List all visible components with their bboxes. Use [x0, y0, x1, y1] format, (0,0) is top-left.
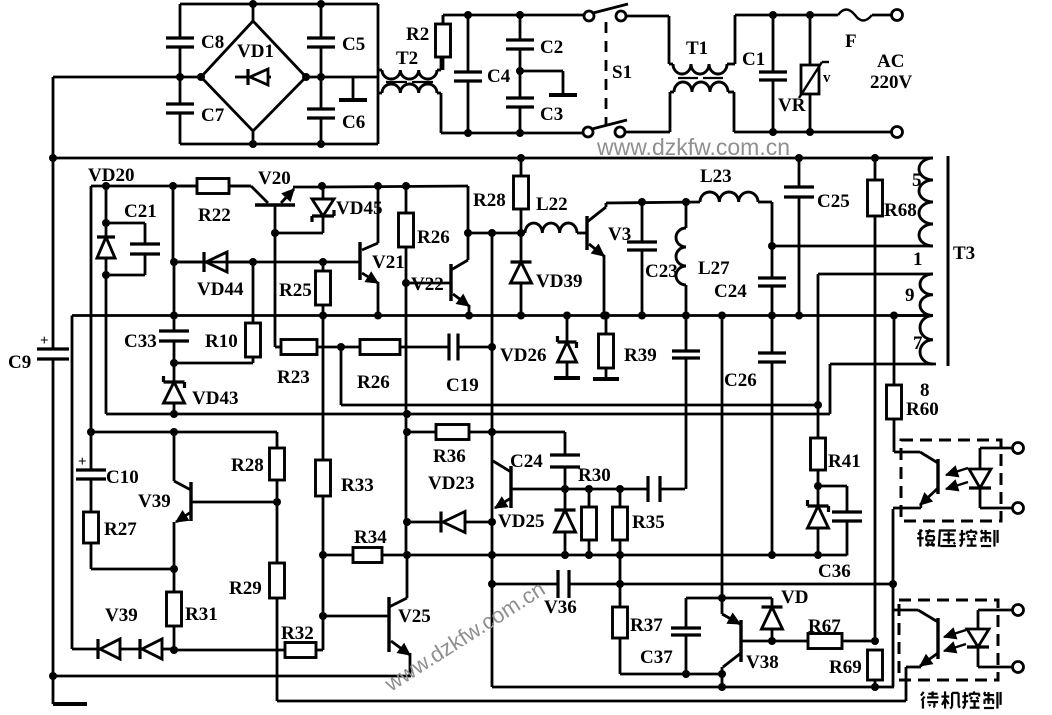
label R32	[281, 623, 314, 644]
wire V20 base lead	[274, 205, 277, 233]
node C2/C3 midpoint	[516, 67, 524, 75]
node x407 / line2	[403, 410, 411, 418]
svg-text:V36: V36	[544, 597, 577, 618]
label R22	[198, 205, 231, 226]
capacitor C6	[307, 77, 335, 144]
T1 core lines	[678, 77, 723, 79]
node rail432 / V39 column	[170, 428, 178, 436]
label L27	[698, 258, 730, 279]
U2 terminal bottom	[1013, 662, 1024, 673]
wire x323 column lower	[322, 555, 325, 650]
wire C28 corner up	[684, 359, 686, 490]
svg-text:R2: R2	[406, 24, 429, 45]
wire rail y598	[686, 597, 772, 600]
wire VD20 node down to line2	[105, 275, 108, 414]
label pin 7	[913, 333, 923, 354]
label VD43	[192, 388, 238, 409]
U2 phototransistor collector lead	[894, 610, 938, 622]
node C26 bottom / rail555	[768, 551, 776, 559]
node R22 left	[169, 182, 177, 190]
wire midline y315.5	[72, 314, 933, 317]
node C19 / x492 column	[488, 343, 496, 351]
wire V3 collector rail y203	[606, 202, 700, 203]
resistor R2	[436, 15, 451, 70]
node V3 emitter / midline	[600, 312, 608, 320]
label VD1	[237, 41, 274, 62]
label R67	[808, 616, 841, 637]
label R30	[578, 465, 611, 486]
ground plate below VD26	[554, 373, 580, 378]
svg-text:R69: R69	[829, 657, 862, 678]
node C6 bottom	[317, 140, 325, 148]
svg-text:VD1: VD1	[237, 41, 274, 62]
svg-text:VD45: VD45	[336, 198, 382, 219]
label C36	[818, 561, 851, 582]
switch S1 upper lever	[593, 4, 628, 13]
wire line1 y405	[341, 404, 818, 407]
resistor R32	[285, 643, 323, 658]
svg-text:V20: V20	[258, 168, 291, 189]
svg-text:1: 1	[913, 249, 923, 270]
U1 LED lead bottom	[980, 488, 1013, 508]
wire V39 base lead	[191, 501, 277, 504]
svg-text:220V: 220V	[870, 72, 913, 93]
wire V21 collector	[362, 186, 378, 250]
wire R30 rail y489	[565, 488, 648, 491]
T2 core lines	[386, 81, 433, 83]
transistor V20 emitter	[281, 187, 322, 203]
capacitor C2	[506, 15, 534, 71]
node V22 base	[402, 279, 410, 287]
node at VD1 top	[249, 0, 257, 8]
label R35	[632, 512, 665, 533]
node L23 / pin1 line	[768, 242, 776, 250]
U1 coupling arrow 2	[946, 480, 968, 491]
U2 LED lead bottom	[978, 647, 1013, 667]
wire x875 column	[874, 216, 876, 650]
U2 LED diode	[967, 629, 989, 647]
svg-text:8: 8	[920, 380, 930, 401]
label pin 1	[913, 249, 923, 270]
resistor R23	[275, 340, 341, 355]
diode VD20	[97, 223, 115, 275]
label standby control (Chinese)	[921, 691, 1001, 708]
resistor R27	[84, 512, 99, 569]
U2 coupling arrow 1	[944, 628, 966, 639]
label T2	[396, 48, 418, 69]
wire V24 base lead	[511, 488, 565, 491]
capacitor C37	[671, 598, 701, 674]
node R31 bottom / diode rail	[170, 646, 178, 654]
varistor VR	[799, 15, 829, 132]
label C24 (upper)	[714, 281, 747, 302]
label C21	[124, 201, 157, 222]
wire R36 rail to C24	[492, 432, 565, 455]
svg-text:C8: C8	[201, 32, 224, 53]
wire pin9 branch	[818, 274, 933, 405]
switch S1 dashed link	[605, 22, 608, 126]
svg-text:L23: L23	[700, 166, 732, 187]
resistor R31	[167, 569, 182, 650]
node C2 top	[516, 11, 524, 19]
wire V20 base column to R23	[274, 233, 277, 347]
node VD1 left vertex	[197, 73, 205, 81]
label V39 (diodes)	[105, 605, 138, 626]
node R23/R26 junction	[337, 343, 345, 351]
wire S1 bottom to T1	[625, 92, 670, 132]
capacitor C33	[159, 262, 189, 363]
label VD26	[500, 345, 546, 366]
node C23 bottom / midline	[638, 312, 646, 320]
node V21 emitter / midline	[374, 312, 382, 320]
node line1 / R41 column	[814, 401, 822, 409]
node R30 top	[585, 485, 593, 493]
U2 phototransistor base bar	[936, 618, 939, 659]
svg-text:T2: T2	[396, 48, 418, 69]
svg-text:AC: AC	[877, 51, 904, 72]
node R28 top / bus	[517, 154, 525, 162]
svg-text:7: 7	[913, 333, 923, 354]
wire VD45 bottom	[275, 216, 323, 233]
wire rail y186 corner down	[467, 186, 470, 233]
U2 phototransistor emitter	[906, 653, 938, 667]
wire VD1 bottom vertex to box bottom	[252, 131, 255, 144]
wire V39 collector	[174, 432, 191, 490]
svg-text:V22: V22	[411, 274, 444, 295]
U2 LED lead top	[978, 610, 1013, 629]
wire VD23 rail y522	[407, 521, 441, 524]
inductor L22	[525, 223, 577, 233]
svg-text:R29: R29	[229, 578, 262, 599]
node VD39 bottom / midline	[517, 312, 525, 320]
svg-text:R22: R22	[198, 205, 231, 226]
node at VD1 bottom	[249, 140, 257, 148]
svg-text:C33: C33	[124, 331, 157, 352]
node VD bottom / V38 base	[768, 637, 776, 645]
svg-text:VD: VD	[781, 587, 808, 608]
resistor R69	[868, 650, 883, 687]
wire control rail y186	[91, 186, 251, 432]
capacitor C27 (unlabeled)	[672, 316, 700, 490]
capacitor C28 (unlabeled)	[648, 476, 685, 502]
svg-text:5: 5	[912, 170, 922, 191]
node VD26 top / midline	[563, 312, 571, 320]
label C6	[342, 112, 365, 133]
wire V20 emitter rail	[322, 186, 468, 187]
zener diode VD43	[164, 363, 185, 414]
label R33	[341, 475, 374, 496]
resistor R29	[270, 480, 285, 701]
svg-text:R10: R10	[205, 331, 238, 352]
label R31	[185, 604, 218, 625]
capacitor C36	[832, 512, 862, 556]
wire filter box top	[443, 15, 584, 24]
resistor R36	[407, 425, 492, 440]
transistor V3 base bar	[585, 216, 588, 250]
svg-text:R68: R68	[884, 200, 917, 221]
zener diode VD26	[558, 316, 577, 374]
node VD25 bottom / rail555	[561, 551, 569, 559]
wire C36 corner	[846, 522, 848, 555]
svg-text:C6: C6	[342, 112, 365, 133]
svg-text:R60: R60	[906, 399, 939, 420]
svg-text:R39: R39	[624, 345, 657, 366]
U2 coupling arrow 2	[944, 642, 966, 653]
node rail674 / V38 emitter	[718, 670, 726, 678]
label V25	[398, 606, 431, 627]
node VD45 top	[318, 182, 326, 190]
label AC 220V	[870, 51, 913, 93]
node left bus / bottom bus	[49, 672, 57, 680]
U1 coupling arrow 1	[946, 466, 968, 477]
svg-text:T1: T1	[686, 38, 708, 59]
svg-text:R36: R36	[433, 446, 466, 467]
node C24(2) bottom	[561, 485, 569, 493]
node R33 bottom / rail555	[319, 551, 327, 559]
capacitor C4	[454, 15, 482, 133]
wire C36 branch	[818, 486, 847, 512]
svg-text:VD20: VD20	[88, 165, 134, 186]
zener diode VD45	[312, 186, 334, 222]
svg-text:C10: C10	[106, 467, 139, 488]
wire bottom edge of rectifier box	[180, 143, 378, 146]
label v of VR	[823, 70, 831, 86]
label R27	[104, 519, 137, 540]
transistor V22 collector	[451, 233, 468, 270]
inductor L23	[700, 192, 758, 202]
label C7	[201, 105, 225, 126]
svg-text:C37: C37	[640, 647, 673, 668]
svg-text:C5: C5	[342, 34, 365, 55]
wire top edge of rectifier box	[180, 3, 378, 6]
transistor V24 collector (unlabeled)	[493, 461, 511, 472]
wire R35R37 column link	[619, 555, 622, 607]
node VD1 right vertex	[302, 73, 310, 81]
node R10 top	[249, 258, 257, 266]
label pin 5	[912, 170, 922, 191]
wire right edge of rectifier box	[377, 4, 380, 144]
switch S1 lower lever	[592, 120, 627, 129]
capacitor C3	[506, 71, 534, 133]
optocoupler U1 dashed box	[901, 440, 1001, 521]
svg-text:+: +	[40, 333, 49, 349]
svg-text:C23: C23	[645, 261, 678, 282]
capacitor C26	[758, 316, 786, 556]
transistor V25 emitter	[391, 641, 410, 676]
wire V25 emitter to bus	[410, 675, 411, 677]
resistor R22	[173, 179, 251, 194]
node C25 top / bus	[795, 154, 803, 162]
resistor R37	[613, 607, 628, 674]
diode VD23	[441, 512, 492, 533]
node R35 top	[616, 485, 624, 493]
label C4	[487, 66, 511, 87]
diode VD25	[555, 489, 576, 555]
svg-text:V21: V21	[372, 252, 405, 273]
label R41	[828, 451, 861, 472]
switch S1 lower contact circles	[583, 127, 625, 137]
diode VD39	[511, 233, 532, 316]
transistor V3 collector	[587, 203, 606, 222]
svg-text:T3: T3	[953, 243, 975, 264]
wire x342 column down	[340, 347, 343, 405]
capacitor C24 (upper)	[758, 246, 786, 316]
capacitor C7	[166, 77, 194, 144]
diode symbol inside VD1	[235, 69, 271, 85]
watermark diagonal	[379, 576, 549, 697]
node R26 top	[402, 182, 410, 190]
node R28 bottom / L22	[517, 229, 525, 237]
svg-text:C4: C4	[487, 66, 511, 87]
wire x72 column	[71, 316, 74, 650]
transistor V25 base bar	[387, 597, 390, 652]
node C33 column / midline	[170, 312, 178, 320]
wire left bus vertical	[52, 77, 55, 704]
node rail569 / V39 emitter	[170, 565, 178, 573]
label R25	[279, 280, 312, 301]
diode V39a	[98, 639, 120, 659]
svg-text:C21: C21	[124, 201, 157, 222]
capacitor C8	[166, 4, 194, 77]
resistor R25	[316, 262, 331, 316]
capacitor C1	[759, 15, 787, 132]
svg-text:VD23: VD23	[428, 473, 474, 494]
resistor R30	[582, 489, 597, 555]
node rail432 left	[87, 428, 95, 436]
node VR bottom	[806, 128, 814, 136]
resistor R28 (lower)	[270, 448, 285, 480]
wire C21 bottom branch	[106, 274, 145, 277]
label C37	[640, 647, 673, 668]
T3 core line	[947, 156, 950, 366]
node C5 top	[317, 0, 325, 8]
capacitor C21	[130, 223, 160, 275]
label C24 (lower)	[510, 451, 543, 472]
svg-text:C19: C19	[446, 375, 479, 396]
svg-text:C7: C7	[201, 105, 225, 126]
transformer T1 secondary winding	[670, 82, 734, 132]
node below C33	[170, 359, 178, 367]
U1 phototransistor emitter	[893, 488, 938, 508]
U1 LED lead top	[980, 448, 1013, 469]
node zener / rail555	[814, 551, 822, 559]
node R69 bottom / bus2	[871, 683, 879, 691]
node VR top	[806, 11, 814, 19]
label R28 (top)	[473, 190, 506, 211]
watermark horizontal	[596, 134, 790, 160]
node C4 bottom	[464, 129, 472, 137]
node VD23 right / x492	[488, 518, 496, 526]
wire top bus y158	[53, 157, 933, 160]
label R34	[354, 527, 387, 548]
U1 terminal top	[1013, 443, 1024, 454]
label L22	[536, 194, 568, 215]
label VD44	[197, 279, 244, 300]
svg-text:VD43: VD43	[192, 388, 238, 409]
wire x894 column	[892, 509, 895, 687]
svg-text:+: +	[78, 454, 87, 470]
node R25 top	[319, 258, 327, 266]
label L23	[700, 166, 732, 187]
label C19	[446, 375, 479, 396]
label C8	[201, 32, 224, 53]
inductor L27	[676, 202, 686, 316]
node x407 / rail555	[403, 551, 411, 559]
label R36	[433, 446, 466, 467]
node C5/C6 junction	[317, 73, 325, 81]
label V38	[746, 652, 779, 673]
wire C2/C3 mid to ground plate	[520, 70, 563, 73]
diode V39b	[120, 639, 174, 659]
resistor R41	[811, 405, 826, 486]
label R37	[630, 615, 663, 636]
svg-text:C2: C2	[540, 37, 563, 58]
svg-text:C9: C9	[8, 352, 31, 373]
transistor V38 base bar	[739, 620, 742, 662]
transistor V21 emitter	[362, 272, 378, 315]
wire C19 right corner up	[491, 234, 493, 348]
label voltage-regulation control (Chinese)	[917, 529, 998, 546]
transistor V39 emitter	[174, 511, 191, 569]
node rail584 / x894	[889, 580, 897, 588]
svg-text:S1: S1	[612, 62, 632, 83]
label C9 plus	[40, 333, 49, 349]
svg-text:C25: C25	[817, 191, 850, 212]
wire V38 base lead	[741, 640, 772, 643]
transformer T2 top winding	[378, 57, 441, 79]
node VD20/C21 bottom	[102, 271, 110, 279]
label VD25	[498, 511, 544, 532]
wire line2 y414	[106, 413, 830, 416]
transistor V22 base bar	[449, 264, 452, 301]
wire L23 right lead down	[758, 202, 772, 246]
transistor V39 base bar	[189, 482, 192, 521]
node VD20 top	[102, 182, 110, 190]
label R23	[277, 367, 310, 388]
wire R26 column down	[405, 283, 408, 556]
capacitor V36	[558, 570, 569, 598]
wire rail y674	[620, 673, 722, 676]
label R68	[884, 200, 917, 221]
wire filter box bottom	[441, 132, 583, 135]
transistor V38 emitter arrow	[722, 653, 741, 687]
wire T3 pin1 line	[772, 245, 933, 248]
label V39 (transistor)	[138, 491, 171, 512]
capacitor C24 (lower)	[550, 455, 580, 489]
capacitor C9	[37, 349, 69, 359]
label R28 (lower)	[231, 455, 264, 476]
svg-text:9: 9	[905, 285, 915, 306]
svg-text:V25: V25	[398, 606, 431, 627]
label pin 9	[905, 285, 915, 306]
capacitor C19	[449, 334, 492, 361]
svg-text:R41: R41	[828, 451, 861, 472]
svg-text:C3: C3	[540, 104, 563, 125]
wire T1 to AC bottom	[734, 131, 892, 134]
transformer T3 winding 5-1	[919, 158, 933, 246]
transformer T3 winding 9-7 lower	[920, 316, 933, 365]
svg-text:R34: R34	[354, 527, 387, 548]
svg-text:R33: R33	[341, 475, 374, 496]
node C23 top	[638, 198, 646, 206]
label C1	[742, 49, 765, 70]
label VD45	[336, 198, 382, 219]
label VD23	[428, 473, 474, 494]
node left bus / top bus	[49, 154, 57, 162]
node C37 bottom	[682, 670, 690, 678]
label VD39	[536, 271, 582, 292]
svg-text:C24: C24	[714, 281, 747, 302]
